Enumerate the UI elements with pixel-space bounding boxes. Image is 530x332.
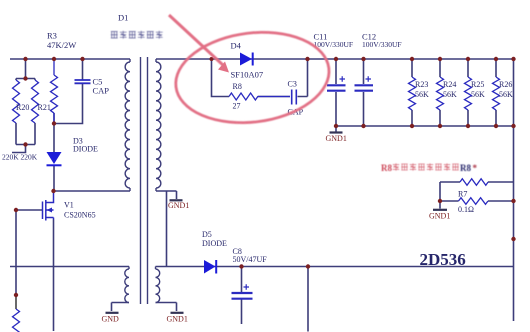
svg-text:56K: 56K — [415, 90, 429, 99]
ground GND aux — [102, 313, 120, 324]
node top R3 — [52, 57, 56, 61]
wire C11 stubs — [335, 59, 337, 126]
wire right bottom rail — [336, 125, 514, 127]
node left rail low — [14, 293, 18, 297]
label D4 — [231, 41, 242, 51]
label 27 — [233, 102, 241, 111]
node box top — [23, 76, 27, 80]
node R25 bottom — [466, 124, 470, 128]
node top C5 — [80, 57, 84, 61]
svg-text:56K: 56K — [499, 90, 513, 99]
svg-text:C3: C3 — [288, 80, 297, 89]
node drain — [51, 189, 55, 193]
label R24 — [443, 80, 457, 99]
transformer primary winding — [125, 59, 130, 191]
svg-text:100V/330UF: 100V/330UF — [362, 40, 402, 49]
svg-text:GND1: GND1 — [168, 201, 189, 210]
wire primary bottom — [54, 190, 130, 192]
svg-text:GND: GND — [102, 315, 120, 324]
wire top main left — [10, 58, 130, 60]
svg-text:D1: D1 — [118, 13, 128, 23]
resistor Rtop parallel R7 — [460, 179, 488, 186]
svg-text:R25: R25 — [471, 80, 484, 89]
node R23 top — [410, 57, 414, 61]
svg-text:50V/47UF: 50V/47UF — [233, 255, 268, 264]
wire R3-D3 link — [53, 113, 55, 152]
wire left rail to Rsense — [15, 295, 17, 309]
label C3 CAP — [288, 108, 304, 117]
svg-text:R21: R21 — [38, 103, 51, 112]
resistor R26 — [493, 77, 500, 110]
svg-text:R26: R26 — [499, 80, 512, 89]
capacitor C8 — [232, 284, 253, 298]
diode D4 — [240, 53, 253, 66]
node R26 bottom — [494, 124, 498, 128]
label R7 — [458, 190, 467, 199]
wire GND1 stub at R7 — [439, 201, 441, 209]
capacitor C12 — [355, 76, 374, 91]
label D3 — [73, 137, 98, 154]
svg-text:D5: D5 — [202, 230, 212, 239]
svg-text:CAP: CAP — [93, 86, 110, 96]
wire R24 stubs — [439, 59, 441, 126]
resistor R23 — [409, 77, 416, 110]
resistor R20 — [13, 80, 20, 123]
label C5 — [93, 77, 110, 96]
transformer secondary bottom winding — [156, 267, 160, 303]
label SF10A07 — [231, 70, 264, 80]
label C11 — [314, 32, 354, 50]
svg-text:GND1: GND1 — [167, 315, 188, 324]
node R26 top — [494, 57, 498, 61]
wire secondary mid vertical — [166, 191, 168, 267]
wire R26 stubs — [495, 59, 497, 126]
node snubber right — [305, 57, 309, 61]
node C12 bottom — [361, 124, 365, 128]
svg-text:R8: R8 — [233, 82, 242, 91]
resistor R24 — [437, 77, 444, 110]
ground GND1 secondary bottom — [167, 313, 188, 324]
svg-text:CS20N65: CS20N65 — [64, 211, 96, 220]
wire left rail — [15, 210, 17, 295]
resistor R8 — [229, 93, 290, 100]
capacitor C11 — [327, 76, 346, 91]
wire C8 bottom stub — [241, 267, 243, 325]
node C11 bottom — [334, 124, 338, 128]
wire R23 stubs — [411, 59, 413, 126]
svg-text:R8: R8 — [381, 163, 392, 173]
ground GND1 secondary top — [168, 200, 189, 210]
svg-text:*: * — [473, 163, 478, 173]
label R25 — [471, 80, 485, 99]
wire gate lead — [16, 209, 43, 211]
node rail bottom wire — [511, 124, 515, 128]
wire R20R21 bottom tail — [12, 145, 26, 153]
wire R20R21 stub — [25, 59, 27, 79]
svg-text:DIODE: DIODE — [202, 239, 227, 248]
wire R25 stubs — [467, 59, 469, 126]
wire R7 loop — [440, 182, 514, 201]
node rail mid — [511, 237, 515, 241]
svg-text:220K 220K: 220K 220K — [2, 153, 38, 162]
svg-text:0.1Ω: 0.1Ω — [458, 205, 474, 214]
label 220K 220K — [2, 153, 38, 162]
wire top main right — [156, 58, 514, 60]
red annotation text (CJK simulated) — [381, 163, 478, 173]
svg-text:D4: D4 — [231, 41, 242, 51]
node R3 C5 D3 — [52, 121, 56, 125]
label R8 — [233, 82, 242, 91]
svg-text:R24: R24 — [443, 80, 456, 89]
ground GND1 under C11 — [326, 133, 347, 144]
svg-text:100V/330UF: 100V/330UF — [314, 40, 354, 49]
svg-text:R8: R8 — [460, 163, 471, 173]
node R7 left — [438, 199, 442, 203]
transformer aux winding — [125, 267, 129, 303]
wire GND1 stub under C11 — [335, 126, 337, 132]
node top right corner — [511, 57, 515, 61]
node box bottom — [23, 142, 27, 146]
node R24 bottom — [438, 124, 442, 128]
label R23 — [415, 80, 429, 99]
resistor R21 — [32, 80, 39, 123]
wire right rail — [513, 59, 515, 321]
resistor R3 — [51, 59, 58, 124]
label V1 — [64, 201, 96, 220]
label C3 — [288, 80, 297, 89]
wire D3 to drain node — [53, 166, 55, 191]
node R23 bottom — [410, 124, 414, 128]
label C8 — [233, 247, 268, 264]
label 0.1ohm — [458, 205, 474, 214]
diode D5 — [204, 260, 216, 274]
svg-text:V1: V1 — [64, 201, 74, 210]
label R20 — [16, 103, 29, 112]
ground GND1 at R7 — [429, 210, 450, 221]
node C12 top — [361, 57, 365, 61]
svg-text:2D536: 2D536 — [420, 250, 466, 269]
label D1 — [118, 13, 128, 23]
wire aux winding top — [10, 266, 129, 268]
transformer T1 core — [141, 57, 148, 304]
node C11 top — [334, 57, 338, 61]
svg-text:56K: 56K — [443, 90, 457, 99]
wire output down stub — [307, 267, 309, 332]
label transformer title (CJK simulated) — [111, 31, 163, 39]
svg-text:R20: R20 — [16, 103, 29, 112]
node top R20 stub — [23, 57, 27, 61]
svg-text:GND1: GND1 — [326, 134, 347, 143]
label C12 — [362, 32, 402, 50]
transformer secondary top winding — [156, 59, 161, 191]
diode D3 — [47, 152, 62, 165]
svg-text:R3: R3 — [47, 31, 57, 41]
label R21 — [38, 103, 51, 112]
svg-text:GND1: GND1 — [429, 212, 450, 221]
svg-text:R7: R7 — [458, 190, 467, 199]
wire sec2 gnd stub right — [156, 303, 177, 312]
svg-text:56K: 56K — [471, 90, 485, 99]
wire snubber loop — [212, 59, 308, 97]
svg-text:47K/2W: 47K/2W — [47, 40, 76, 50]
wire mosfet source — [53, 220, 55, 332]
svg-text:DIODE: DIODE — [73, 145, 98, 154]
wire C12 stubs — [363, 59, 365, 126]
capacitor C5 — [75, 80, 91, 83]
node R7 right — [511, 199, 515, 203]
wire C5 stub — [54, 59, 83, 124]
node snubber left — [210, 57, 214, 61]
node C8 top — [239, 264, 243, 268]
label R26 — [499, 80, 513, 99]
resistor R25 — [465, 77, 472, 110]
wire aux gnd stub left — [112, 303, 130, 312]
label R3 — [47, 31, 76, 51]
node output stub — [306, 264, 310, 268]
node R24 top — [438, 57, 442, 61]
label D5 — [202, 230, 227, 248]
svg-text:SF10A07: SF10A07 — [231, 70, 264, 80]
annotation red ellipse — [171, 24, 335, 131]
label 2D536 — [420, 250, 466, 269]
svg-text:27: 27 — [233, 102, 241, 111]
node R25 top — [466, 57, 470, 61]
transistor V1 — [43, 191, 54, 221]
resistor Rsense bottom left — [13, 309, 20, 332]
svg-text:R23: R23 — [415, 80, 428, 89]
capacitor C3 — [292, 90, 297, 105]
wire R20R21 box — [16, 79, 35, 145]
wire secondary top gnd stub — [156, 191, 177, 199]
annotation red arrow — [169, 15, 229, 73]
node gate — [14, 208, 18, 212]
wire output rail — [156, 266, 514, 268]
resistor R7 — [459, 198, 488, 205]
